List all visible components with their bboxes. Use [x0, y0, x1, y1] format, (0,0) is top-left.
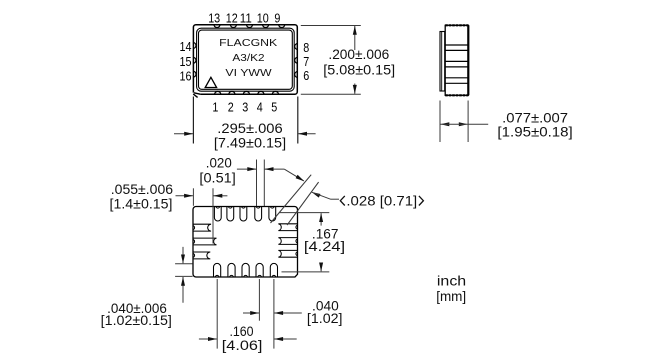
dim .200 extension line bottom: [301, 93, 361, 95]
side view castellation line 6: [445, 82, 468, 84]
dim .020 right arrowhead: [265, 167, 274, 171]
top view lid seal ring inner line: [199, 30, 293, 89]
dim .040l bottom arrowhead: [181, 277, 185, 286]
bottom view package outline: [193, 207, 298, 278]
dim .160 right arrow line: [274, 338, 297, 340]
svg-text:11: 11: [240, 10, 252, 25]
dim .077 extension line right: [467, 101, 469, 143]
svg-text:4: 4: [257, 100, 263, 115]
bottom view top castellation slot 2: [227, 207, 234, 222]
svg-text:VI YWW: VI YWW: [225, 67, 271, 79]
side view lid inner line: [441, 32, 443, 92]
top view castellation notch arcs: [193, 24, 298, 94]
side view right edge thick: [467, 25, 469, 95]
side view castellation line 4: [445, 66, 468, 68]
svg-text:[mm]: [mm]: [436, 288, 466, 304]
svg-text:2: 2: [228, 100, 234, 115]
dim .040l extension line top: [175, 263, 193, 265]
svg-text:[4.24]: [4.24]: [304, 238, 345, 254]
ref .028 lower leader line: [312, 192, 331, 199]
ref .028 diagonal line A: [271, 175, 312, 223]
dim .040r left arrow line: [243, 312, 259, 314]
svg-text:1: 1: [212, 100, 218, 115]
ref .028 leader horizontal tail: [331, 198, 340, 200]
dim .055 right arrowhead: [213, 194, 222, 198]
svg-text:[1.4±0.15]: [1.4±0.15]: [110, 196, 173, 212]
dim .055 extension line right: [212, 188, 214, 243]
ref .028 right angle bracket (drawn): [419, 196, 424, 206]
dim .295 right arrowhead: [298, 132, 307, 136]
svg-text:[1.02]: [1.02]: [307, 310, 343, 326]
bottom view left castellation slot 2: [193, 238, 217, 245]
dim .040l top arrow line: [182, 247, 184, 263]
side view castellation line 2: [445, 49, 468, 51]
dim .020 right arrow line: [265, 168, 285, 170]
dim .167 extension line bottom: [282, 271, 330, 273]
dim .040r extension line left: [258, 279, 260, 321]
bottom view bottom castellation slot 3: [242, 263, 249, 277]
dim .077 dim line: [440, 123, 468, 125]
bottom view top castellation slot 4: [255, 207, 262, 222]
bottom view right castellation slot 2: [278, 238, 297, 245]
dim .167 top arrowhead: [319, 213, 323, 222]
svg-text:[1.95±0.18]: [1.95±0.18]: [497, 124, 572, 140]
bottom view bottom castellation slot 4: [256, 263, 263, 277]
dim .055 left arrowhead: [184, 194, 193, 198]
ref .028 left angle bracket (drawn): [340, 196, 345, 206]
bottom view bottom castellation slot 2: [228, 263, 235, 277]
dim .055 extension line left: [192, 188, 194, 206]
svg-text:6: 6: [303, 68, 309, 83]
side view body outline: [445, 25, 468, 95]
dim .200 dim line lower segment: [354, 84, 356, 94]
dim .200 extension line top: [301, 25, 361, 27]
dim .020 extension line left: [256, 160, 258, 207]
svg-text:[1.02±0.15]: [1.02±0.15]: [101, 312, 172, 328]
svg-text:.200±.006: .200±.006: [328, 46, 389, 62]
ref .028 diagonal line B: [287, 182, 319, 225]
side view castellation line 5: [445, 77, 468, 79]
dim .160 left arrow line: [199, 338, 217, 340]
dim .167 extension line top: [280, 212, 330, 214]
dim .040r right arrowhead: [274, 311, 283, 315]
dim .295 left arrow line: [174, 133, 193, 135]
dim .077 right arrowhead: [459, 122, 468, 126]
dim .040r left arrowhead: [250, 311, 259, 315]
dim .040l bottom arrow line: [182, 277, 184, 303]
dim .295 extension line right: [297, 97, 299, 144]
top view lid seal ring outer line: [197, 28, 295, 91]
dim .167 dim line lower segment: [320, 263, 322, 272]
svg-text:14: 14: [180, 39, 192, 54]
side view castellation line 3: [445, 60, 468, 62]
dim .040r extension line right: [273, 279, 275, 349]
dim .200 bottom arrowhead: [353, 85, 357, 94]
svg-text:A3/K2: A3/K2: [232, 52, 264, 64]
svg-text:[7.49±0.15]: [7.49±0.15]: [214, 134, 286, 150]
svg-text:[0.51]: [0.51]: [199, 169, 235, 185]
dim .040r right arrow line: [274, 312, 302, 314]
bottom view castellation mouth notch arcs: [193, 206, 298, 277]
dim .295 right arrow line: [298, 133, 315, 135]
bottom view top castellation slot 5: [269, 207, 276, 222]
svg-text:7: 7: [303, 54, 309, 69]
dim .160 extension line left: [216, 279, 218, 349]
svg-text:FLACGNK: FLACGNK: [219, 37, 277, 49]
svg-text:.028 [0.71]: .028 [0.71]: [346, 193, 417, 209]
svg-text:13: 13: [208, 10, 220, 25]
side view lid outline: [440, 32, 445, 92]
side view top edge thick dashed: [445, 24, 468, 26]
dim .077 extension line left: [439, 101, 441, 143]
dim .295 extension line left: [192, 97, 194, 144]
dim .020 extension line right: [263, 160, 265, 207]
dim .077 left arrowhead: [440, 122, 449, 126]
svg-text:8: 8: [303, 40, 309, 55]
ref .028 upper leader line: [284, 169, 304, 181]
dim .040l top arrowhead: [181, 255, 185, 264]
side view bottom edge thick dashed: [445, 94, 468, 96]
dim .020 left arrow line: [237, 168, 256, 170]
dim .200 dim line upper segment: [354, 26, 356, 50]
dim .200 top arrowhead: [353, 26, 357, 35]
dim .055 left arrow line: [176, 195, 193, 197]
dim .160 left arrowhead: [208, 337, 217, 341]
svg-text:16: 16: [180, 68, 192, 83]
bottom view bottom castellation slot 1: [214, 263, 221, 277]
svg-text:3: 3: [242, 100, 248, 115]
bottom view left castellation slot 1: [193, 224, 211, 231]
svg-text:9: 9: [274, 10, 280, 25]
bottom view right castellation slot 1: [278, 224, 297, 231]
svg-text:15: 15: [180, 54, 192, 69]
top view pin 1 indicator triangle: [205, 77, 216, 87]
side view castellation line 1: [445, 44, 468, 46]
svg-text:.020: .020: [206, 155, 232, 171]
bottom view left castellation slot 3: [193, 252, 210, 259]
top view package outer outline: [193, 25, 297, 95]
bottom view bottom castellation slot 5: [270, 263, 277, 277]
svg-text:[5.08±0.15]: [5.08±0.15]: [323, 62, 395, 78]
bottom view right castellation slot 3: [278, 250, 297, 257]
ref .028 upper leader arrowhead: [296, 175, 305, 181]
svg-text:5: 5: [271, 100, 277, 115]
dim .167 bottom arrowhead: [319, 263, 323, 272]
dim .167 dim line upper segment: [320, 213, 322, 225]
svg-text:inch: inch: [437, 273, 466, 289]
dim .020 left arrowhead: [247, 167, 256, 171]
svg-text:12: 12: [226, 10, 238, 25]
dim .077 dim line tail: [468, 123, 488, 125]
dim .055 right arrow line: [213, 195, 227, 197]
top view pin-1 index corner chamfer tick: [193, 93, 200, 98]
dim .160 right arrowhead: [274, 337, 283, 341]
dim .295 left arrowhead: [184, 132, 193, 136]
dim .040l extension line bottom: [175, 275, 193, 277]
ref .028 lower leader arrowhead: [312, 192, 321, 198]
svg-text:[4.06]: [4.06]: [222, 337, 263, 353]
bottom view top castellation slot 3: [240, 207, 247, 222]
svg-text:10: 10: [257, 10, 269, 25]
bottom view top castellation slot 1: [214, 207, 221, 222]
